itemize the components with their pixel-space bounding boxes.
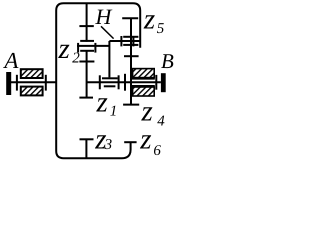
svg-text:A: A (2, 48, 19, 73)
svg-text:3: 3 (104, 137, 113, 153)
bearing A upper block (21, 69, 43, 78)
svg-text:2: 2 (72, 51, 80, 67)
gear z2 / ring stem from frame top (86, 3, 88, 42)
z2 mesh pitch stroke left (77, 43, 79, 53)
main shaft center segment (87, 81, 161, 83)
carrier H frame: top-right corner and right wall upper segment (133, 3, 140, 48)
gear z2 bottom cap (80, 40, 94, 42)
gear z5 top cap (122, 17, 138, 19)
carrier H step line top right (109, 40, 140, 42)
bearing A lower block (21, 87, 43, 96)
bearing B lower block thick inner edge (132, 85, 155, 87)
bearing B upper block thick inner edge (132, 77, 155, 79)
carrier H frame: bottom-right step arc (122, 142, 131, 158)
z2 mesh pitch stroke right (94, 43, 96, 53)
shaft tick at z4 hub (124, 74, 126, 91)
ring gear z6 cap (124, 141, 136, 143)
shaft tick at carrier hub right (118, 75, 120, 89)
carrier H arm vertical (108, 41, 110, 77)
shaft B end bar (161, 73, 166, 92)
shaft A tick right (45, 75, 47, 91)
svg-text:B: B (161, 49, 174, 73)
svg-text:z: z (58, 33, 70, 65)
svg-text:5: 5 (157, 21, 165, 37)
svg-text:H: H (95, 4, 113, 29)
gear z1 top cap (80, 50, 94, 52)
carrier H hub bar below shaft (104, 85, 116, 87)
H leader line (101, 26, 114, 38)
z5 mesh pitch stroke left (120, 36, 122, 46)
shaft A line (11, 81, 56, 83)
shaft B tick (155, 75, 157, 90)
svg-text:z: z (96, 87, 108, 119)
svg-text:z: z (139, 124, 151, 156)
gear z4 bottom cap (123, 104, 139, 106)
svg-text:4: 4 (157, 114, 165, 130)
carrier H frame: top, left wall, bottom (56, 3, 133, 158)
gear z1 stem (86, 51, 88, 98)
shaft A tick left (16, 75, 18, 91)
gear z5 / z4 stem (130, 18, 132, 104)
shaft tick at carrier hub left (99, 75, 101, 89)
svg-text:6: 6 (153, 143, 161, 159)
bearing B lower block (133, 87, 155, 96)
shaft A end bar (6, 72, 11, 95)
gear z4 top bar (123, 44, 138, 46)
svg-text:1: 1 (110, 104, 118, 120)
bearing B upper block (133, 69, 155, 78)
ring gear z3 cap (80, 138, 94, 140)
carrier H hub cap above shaft (102, 77, 118, 79)
gear z1 tick (79, 61, 94, 63)
ring gear z3 stem (85, 139, 87, 158)
planet z2 axle line on carrier (77, 45, 109, 47)
gear z4 tick (124, 55, 139, 57)
gear z1 bottom cap (79, 97, 93, 99)
gear z2 top tick (79, 25, 93, 27)
z5 mesh pitch stroke right (132, 36, 134, 46)
svg-text:z: z (143, 4, 155, 36)
gear z5 bottom bar (123, 36, 138, 38)
